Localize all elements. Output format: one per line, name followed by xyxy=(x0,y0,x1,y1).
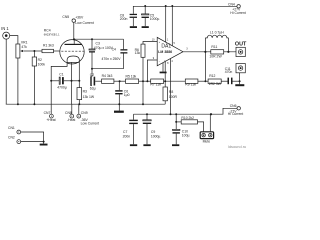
svg-text:1µ0: 1µ0 xyxy=(124,93,130,97)
capacitor C1 4700u xyxy=(50,72,79,89)
svg-text:Mute: Mute xyxy=(203,139,211,143)
node R6 ground xyxy=(142,103,144,105)
capacitor C2 63u xyxy=(90,69,102,91)
resistor R8 100R xyxy=(163,81,178,104)
wire CN1 to ground xyxy=(21,132,44,142)
svg-text:Low Current: Low Current xyxy=(75,21,94,25)
capacitor C7 200n xyxy=(123,114,138,144)
node R8 junction xyxy=(164,80,166,82)
svg-text:RC4: RC4 xyxy=(44,28,51,32)
node pin5 junction xyxy=(171,5,173,7)
node C3/C4 junction xyxy=(91,68,93,70)
svg-text:C3: C3 xyxy=(96,42,100,46)
node C6 ground xyxy=(118,103,120,105)
svg-text:1000µ: 1000µ xyxy=(150,17,160,21)
resistor R4 3k3 xyxy=(102,74,114,83)
svg-text:1000µ: 1000µ xyxy=(151,134,161,138)
connector IN1 (RCA jack) xyxy=(1,26,10,39)
node pin1 junction xyxy=(165,5,167,7)
svg-text:R5 13k: R5 13k xyxy=(126,74,137,78)
pin 8 mute wire xyxy=(164,62,166,82)
resistor R5 13k xyxy=(126,74,139,83)
svg-text:IN 1: IN 1 xyxy=(1,26,9,31)
resistor R7 13k xyxy=(150,79,163,86)
svg-text:R8: R8 xyxy=(169,90,173,94)
wire ground bus xyxy=(6,103,165,105)
wire mute pin2 to rail xyxy=(209,114,211,132)
connector OUT jack 1 xyxy=(235,42,247,57)
svg-text:Hi Current: Hi Current xyxy=(230,11,246,15)
svg-text:CN2: CN2 xyxy=(8,136,15,140)
node feedback/output junction xyxy=(204,80,206,82)
capacitor C6 1u0 xyxy=(115,81,129,104)
capacitor C11 47n xyxy=(225,67,240,84)
node inverting input junction xyxy=(146,80,148,82)
node R3 ground xyxy=(78,103,80,105)
svg-text:200n: 200n xyxy=(123,134,131,138)
node C9 junction xyxy=(146,113,148,115)
pin 7 ground xyxy=(160,63,167,74)
svg-text:2R2 3W: 2R2 3W xyxy=(209,82,222,86)
svg-text:C4: C4 xyxy=(112,47,116,51)
svg-text:R3: R3 xyxy=(83,89,87,93)
wire inverting input xyxy=(147,60,157,81)
node mute junction xyxy=(210,113,212,115)
wire R5 to R7 xyxy=(139,80,151,82)
node cathode mid junction xyxy=(71,80,73,82)
wire R4 to R5 xyxy=(114,80,126,82)
resistor R12 2R2 3W xyxy=(208,74,222,86)
wire cathode mid leg down xyxy=(71,62,73,104)
wire wiper to R1 xyxy=(34,50,42,52)
svg-text:R2: R2 xyxy=(38,58,42,62)
svg-text:10R 2W: 10R 2W xyxy=(209,55,222,59)
svg-text:CN6: CN6 xyxy=(230,104,237,108)
node anode junction xyxy=(73,38,75,40)
node C6 junction xyxy=(119,80,121,82)
wire R1 to grid xyxy=(54,50,61,52)
connector OUT jack 2 xyxy=(236,64,245,73)
svg-text:CN8: CN8 xyxy=(65,111,72,115)
connector CN7 +Heat xyxy=(44,104,56,122)
svg-text:+36V: +36V xyxy=(75,15,84,19)
svg-text:4700µ: 4700µ xyxy=(57,86,67,90)
svg-text:CN9: CN9 xyxy=(81,111,88,115)
svg-text:R11: R11 xyxy=(211,45,217,49)
node pot ground xyxy=(17,103,19,105)
node CN ground junction xyxy=(43,141,45,143)
wire jack to VR1 top xyxy=(10,36,18,44)
svg-text:100µ: 100µ xyxy=(182,133,190,137)
svg-text:R7 13k: R7 13k xyxy=(150,82,161,86)
svg-text:CN7: CN7 xyxy=(44,111,51,115)
capacitor C9 1000u xyxy=(143,114,161,144)
svg-text:DA1: DA1 xyxy=(161,44,171,50)
svg-text:63µ: 63µ xyxy=(90,86,96,90)
op-amp DA1 LM3886 xyxy=(152,37,189,65)
svg-text:OUT: OUT xyxy=(235,42,247,48)
svg-text:C2: C2 xyxy=(90,73,94,77)
svg-text:R4 3k3: R4 3k3 xyxy=(102,74,113,78)
svg-text:R9 13k: R9 13k xyxy=(185,82,196,86)
connector CN1 xyxy=(8,126,21,134)
capacitor C10 100u xyxy=(173,114,190,144)
pin 5 supply wire xyxy=(171,6,173,46)
svg-text:6Н23П-ЕВ 1.1: 6Н23П-ЕВ 1.1 xyxy=(44,33,60,36)
node L1 right junction xyxy=(227,51,229,53)
wire cathode right leg down xyxy=(78,62,80,87)
svg-text:L1 0.7µH: L1 0.7µH xyxy=(210,31,224,35)
ground C10 xyxy=(172,144,179,146)
resistor R6 13k xyxy=(135,42,158,82)
ground CN1/CN2 xyxy=(43,142,45,144)
node C10 junction xyxy=(175,113,177,115)
ground C8 xyxy=(130,26,137,28)
resistor R10 2k2 xyxy=(175,116,203,132)
wire output line xyxy=(183,51,236,53)
potentiometer VR1 47k xyxy=(16,41,35,105)
ground C5 xyxy=(142,26,149,28)
resistor R11 10R 2W xyxy=(209,45,223,59)
node cathode right junction xyxy=(78,80,80,82)
wire jack shield down to ground bus xyxy=(5,39,7,104)
resistor R3 13k 1W xyxy=(77,88,95,105)
wire R7 to R9 xyxy=(164,80,186,82)
svg-text:-Heat: -Heat xyxy=(67,118,75,122)
capacitor C8 200n xyxy=(120,6,137,26)
capacitor C4 470n x 250V xyxy=(92,39,127,68)
connector CN9 -36V xyxy=(77,104,99,126)
connector CN6 -27V xyxy=(228,104,244,116)
node C5 junction xyxy=(144,5,146,7)
connector CN8 -Heat xyxy=(65,104,75,122)
connector Mute xyxy=(200,132,213,144)
wire R6 to ground bus xyxy=(142,81,144,104)
resistor R1 3k3 xyxy=(42,44,54,53)
capacitor C3 470u x 100V xyxy=(89,39,114,68)
ground C9 xyxy=(143,144,150,146)
svg-text:200n: 200n xyxy=(120,17,128,21)
wire CN2 to ground xyxy=(21,141,44,143)
node R2 ground xyxy=(33,103,35,105)
svg-text:+Heat: +Heat xyxy=(46,118,55,122)
wire output to feedback xyxy=(204,52,206,81)
svg-text:R10 2k2: R10 2k2 xyxy=(181,116,194,120)
connector CN4 +27V xyxy=(228,2,246,15)
svg-text:CN1: CN1 xyxy=(8,126,15,130)
svg-text:CN4: CN4 xyxy=(228,2,235,6)
wire R9 to output node xyxy=(198,80,208,82)
svg-text:Low Current: Low Current xyxy=(81,122,100,126)
ground zobel / jack2 xyxy=(235,73,244,86)
svg-text:LM 3886: LM 3886 xyxy=(158,50,172,54)
connector CN5 +36V xyxy=(62,15,93,25)
inductor L1 0.7uH xyxy=(205,31,228,52)
svg-text:13k 1W: 13k 1W xyxy=(83,95,95,99)
svg-text:R1 3k3: R1 3k3 xyxy=(43,44,54,48)
tube RC4 6N23P-EV xyxy=(44,28,84,64)
pin 4 negative supply wire xyxy=(170,59,172,115)
wire CN5 to anode rail xyxy=(73,22,75,39)
wire anode rail xyxy=(74,38,124,40)
node C3 junction xyxy=(91,38,93,40)
pin 1 supply wire xyxy=(165,6,167,42)
svg-text:100k: 100k xyxy=(38,62,46,66)
node R6 junction xyxy=(142,80,144,82)
svg-text:47k: 47k xyxy=(21,45,27,49)
resistor R2 100k xyxy=(32,51,45,104)
wire cathode left leg jog to ground xyxy=(51,62,67,104)
svg-text:R12: R12 xyxy=(209,74,215,78)
svg-text:13k: 13k xyxy=(135,51,141,55)
wire R12 to C11 xyxy=(221,80,227,82)
svg-text:C1: C1 xyxy=(59,72,63,76)
node pin4 junction xyxy=(170,113,172,115)
resistor R9 13k xyxy=(185,79,198,86)
svg-text:ldsound.ru: ldsound.ru xyxy=(228,144,246,149)
node L1 left junction xyxy=(204,51,206,53)
ground C7 xyxy=(130,144,137,146)
wire positive supply rail xyxy=(133,5,237,7)
node wiper junction xyxy=(33,50,35,52)
svg-text:470n x 250V: 470n x 250V xyxy=(102,57,122,61)
connector CN2 xyxy=(8,136,21,144)
capacitor C5 1000u xyxy=(142,6,160,26)
svg-text:470n: 470n xyxy=(225,70,233,74)
wire negative supply rail xyxy=(134,108,238,114)
svg-text:Hi Current: Hi Current xyxy=(228,112,244,116)
svg-text:CN5: CN5 xyxy=(62,15,69,19)
